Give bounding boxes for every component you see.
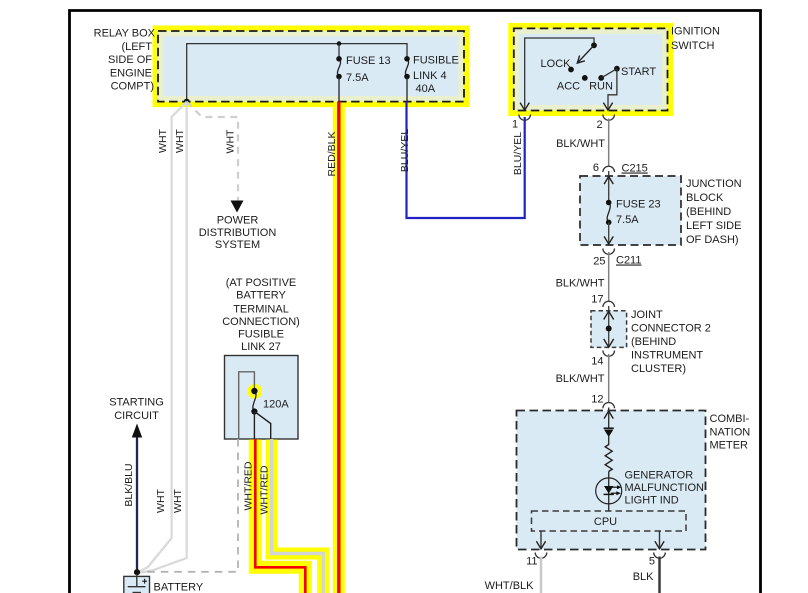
svg-text:NATION: NATION [710,427,751,439]
svg-text:FUSE 13: FUSE 13 [346,55,391,67]
svg-text:IGNITION: IGNITION [671,26,720,38]
svg-text:11: 11 [526,556,537,568]
label joint connector 2 [631,309,711,375]
svg-text:SIDE OF: SIDE OF [108,54,152,66]
fuse F13 lead [338,44,340,57]
pin 12 connector arc [603,403,615,409]
svg-text:COMPT): COMPT) [111,81,154,93]
combination meter entry wire [608,408,610,429]
label fusible link 27 [222,277,300,353]
svg-text:DISTRIBUTION: DISTRIBUTION [199,227,277,239]
starting circuit arrowhead [132,424,142,438]
svg-text:LIGHT IND: LIGHT IND [625,495,679,507]
svg-text:C211: C211 [616,255,641,267]
ignition switch dashed outline [514,28,668,110]
ignition switch highlight [508,23,673,116]
LED triangle [604,486,613,494]
svg-text:FUSE 23: FUSE 23 [616,199,661,211]
connector C211 arc [603,249,615,255]
LOCK contact dot [568,67,574,73]
fusible link 4 lower lead [406,77,408,102]
svg-text:WHT/BLK: WHT/BLK [485,580,535,592]
battery symbol [128,574,146,593]
svg-text:BATTERY: BATTERY [154,582,204,593]
fusible link 27 internal wire [239,372,255,439]
wire WHT/BLK [540,557,543,593]
svg-text:WHT: WHT [225,129,237,153]
svg-text:(BEHIND: (BEHIND [686,206,731,218]
svg-text:ACC: ACC [557,81,580,93]
ACC contact dot [582,75,588,81]
svg-text:(BEHIND: (BEHIND [631,336,676,348]
combination meter box [517,411,706,550]
wire into junction block [608,171,610,202]
svg-text:CLUSTER): CLUSTER) [631,363,686,375]
label generator malfunction light ind [625,470,705,507]
wire BLK/WHT to combination meter [608,354,610,403]
resistor symbol [605,445,612,472]
svg-text:BLK: BLK [633,571,654,583]
fusible link 27 symbol [253,391,256,412]
battery plus sign [142,579,147,584]
wire WHT/RED 1 yellow highlight [255,440,305,593]
junction block exit arrow [604,236,613,244]
junction block entry arrow [604,177,613,185]
svg-text:FUSIBLE: FUSIBLE [238,329,284,341]
wire RED/BLK yellow highlight [333,104,345,593]
node relay box bottom [184,99,190,105]
svg-text:(AT POSITIVE: (AT POSITIVE [226,277,297,289]
label power distribution system [199,215,277,251]
wire diode to resistor [608,436,610,445]
svg-text:RED/BLK: RED/BLK [326,132,338,177]
svg-text:LINK 27: LINK 27 [241,341,281,353]
svg-text:BLU/YEL: BLU/YEL [512,132,524,175]
junction node on bus [337,41,342,46]
wire WHT/RED 2 yellow highlight [272,440,324,593]
svg-text:CONNECTOR 2: CONNECTOR 2 [631,323,711,335]
wire WHT/RED 2 [272,439,324,593]
svg-text:BLU/YEL: BLU/YEL [399,129,411,172]
label fusible link 4 value [413,55,459,96]
svg-text:BLK/WHT: BLK/WHT [556,138,605,150]
relay box bus wire [187,44,407,102]
svg-text:BLK/BLU: BLK/BLU [123,463,135,506]
label fuse 13 value [346,55,391,84]
svg-text:BLOCK: BLOCK [686,192,724,204]
svg-text:7.5A: 7.5A [346,72,369,84]
CPU pin 5 exit arrow [655,541,664,549]
RUN contact dot [598,75,604,81]
svg-text:RELAY BOX: RELAY BOX [94,28,156,40]
wire resistor to LED [608,472,610,505]
svg-text:JUNCTION: JUNCTION [686,178,742,190]
label junction block [686,178,742,246]
svg-text:TERMINAL: TERMINAL [233,304,289,316]
combination meter entry arrow [604,411,613,419]
fuse 23 lower lead [608,222,610,244]
svg-text:STARTING: STARTING [109,397,164,409]
label ignition switch [671,26,720,53]
svg-text:17: 17 [591,293,603,305]
svg-text:RUN: RUN [589,81,613,93]
ignition internal wire START to pin 2 [608,69,617,111]
label relay box [94,28,156,93]
svg-text:12: 12 [591,393,603,405]
svg-text:120A: 120A [263,399,289,411]
joint connector 2 box [591,311,627,348]
pin 5 connector arc [654,553,666,559]
svg-text:CIRCUIT: CIRCUIT [114,410,159,422]
ignition internal wire pin1 to pivot [525,38,594,110]
fuse 13 symbol [337,59,340,77]
svg-text:2: 2 [596,119,602,131]
svg-text:6: 6 [593,162,599,174]
wire BLK/WHT to joint connector 2 [608,252,610,302]
svg-text:POWER: POWER [217,215,259,227]
dashed wire battery feed [145,439,238,572]
svg-text:OF DASH): OF DASH) [686,234,739,246]
wire BLU/YEL from fusible link 4 to ignition pin 1 [407,102,525,218]
joint connector 2 internal wire [608,306,610,347]
fusible link 27 branch lead [254,412,270,440]
CPU box [532,511,687,531]
wire WHT A from relay node [138,102,187,573]
pin 14 connector arc [603,351,615,357]
svg-text:WHT/RED: WHT/RED [259,465,271,514]
fusible link 27 lower leads [253,412,255,440]
CPU output wire pin 5 [659,531,661,548]
connector C215 arc [603,166,615,172]
svg-text:WHT: WHT [155,488,167,512]
svg-text:7.5A: 7.5A [616,214,639,226]
power distribution arrow [231,201,244,213]
svg-text:LOCK: LOCK [541,58,572,70]
svg-text:WHT/RED: WHT/RED [243,461,255,510]
fuse 13 lower lead [338,77,340,102]
pin 2 connector arc [603,115,615,121]
svg-text:14: 14 [591,356,603,368]
joint connector 2 entry arrow [604,311,614,319]
LED emission arrows [611,485,622,495]
LED cathode bar [604,493,614,495]
svg-text:START: START [621,66,656,78]
wire BLK/WHT pin2 down [608,119,610,167]
svg-text:WHT: WHT [157,128,169,152]
wire BLK [658,557,661,593]
wire BLK/BLU [136,433,138,572]
ignition wiper arm to LOCK [577,45,594,63]
START contact dot [614,66,620,72]
pin 17 connector arc [603,301,615,307]
fuse 23 symbol [607,203,610,223]
label starting circuit [109,397,164,423]
svg-text:ENGINE: ENGINE [110,67,152,79]
svg-text:LEFT SIDE: LEFT SIDE [686,220,741,232]
wire WHT dashed to power distribution [187,102,238,201]
fusible link 4 symbol [405,59,408,77]
CPU pin 11 exit arrow [536,541,545,549]
svg-text:COMBI-: COMBI- [710,413,750,425]
pin 11 connector arc [535,553,547,559]
ignition pivot dot [591,42,597,48]
svg-text:BLK/WHT: BLK/WHT [556,373,605,385]
relay box dashed outline [158,31,464,102]
fusible link 27 box [225,356,299,440]
wire LED to CPU [608,504,610,511]
battery node [134,569,140,575]
wiper open arrowhead [577,56,585,64]
svg-text:C215: C215 [622,163,648,175]
relay box highlight [153,26,470,108]
joint connector 2 exit arrow [604,339,614,347]
battery box [124,576,150,593]
svg-text:LINK 4: LINK 4 [413,70,447,82]
svg-text:WHT: WHT [174,128,186,152]
pin 1 connector arc [519,115,531,121]
link RUN to START [601,69,617,78]
svg-text:CPU: CPU [594,516,617,528]
svg-text:BATTERY: BATTERY [236,290,286,302]
svg-text:40A: 40A [416,83,436,95]
svg-text:(LEFT: (LEFT [121,41,152,53]
generator malfunction LED circle [596,478,622,504]
diode symbol [604,428,614,437]
CPU output wire pin 11 [540,531,542,548]
svg-text:25: 25 [593,256,605,268]
svg-text:BLK/WHT: BLK/WHT [556,278,605,290]
svg-text:JOINT: JOINT [631,309,663,321]
wire RED/BLK [337,102,340,593]
svg-text:METER: METER [710,440,749,452]
svg-text:MALFUNCTION: MALFUNCTION [625,482,705,494]
pin 2 exit arrow [603,103,612,111]
svg-text:1: 1 [512,119,518,131]
label fuse 23 value [616,199,661,227]
fusible link 27 highlight ring [249,386,260,397]
pin 1 exit arrow [520,103,529,111]
joint connector 2 junction dot [606,326,612,332]
svg-text:WHT: WHT [172,488,184,512]
wire WHT/RED 1 [255,439,305,593]
svg-text:GENERATOR: GENERATOR [625,470,694,482]
junction block box [580,176,681,245]
svg-text:CONNECTION): CONNECTION) [222,316,300,328]
svg-text:SYSTEM: SYSTEM [215,239,260,251]
svg-text:INSTRUMENT: INSTRUMENT [631,350,703,362]
svg-text:5: 5 [649,556,655,568]
wire WHT B from relay node [138,102,187,573]
label combination meter [710,413,751,452]
svg-text:SWITCH: SWITCH [671,40,714,52]
svg-text:FUSIBLE: FUSIBLE [413,55,459,67]
